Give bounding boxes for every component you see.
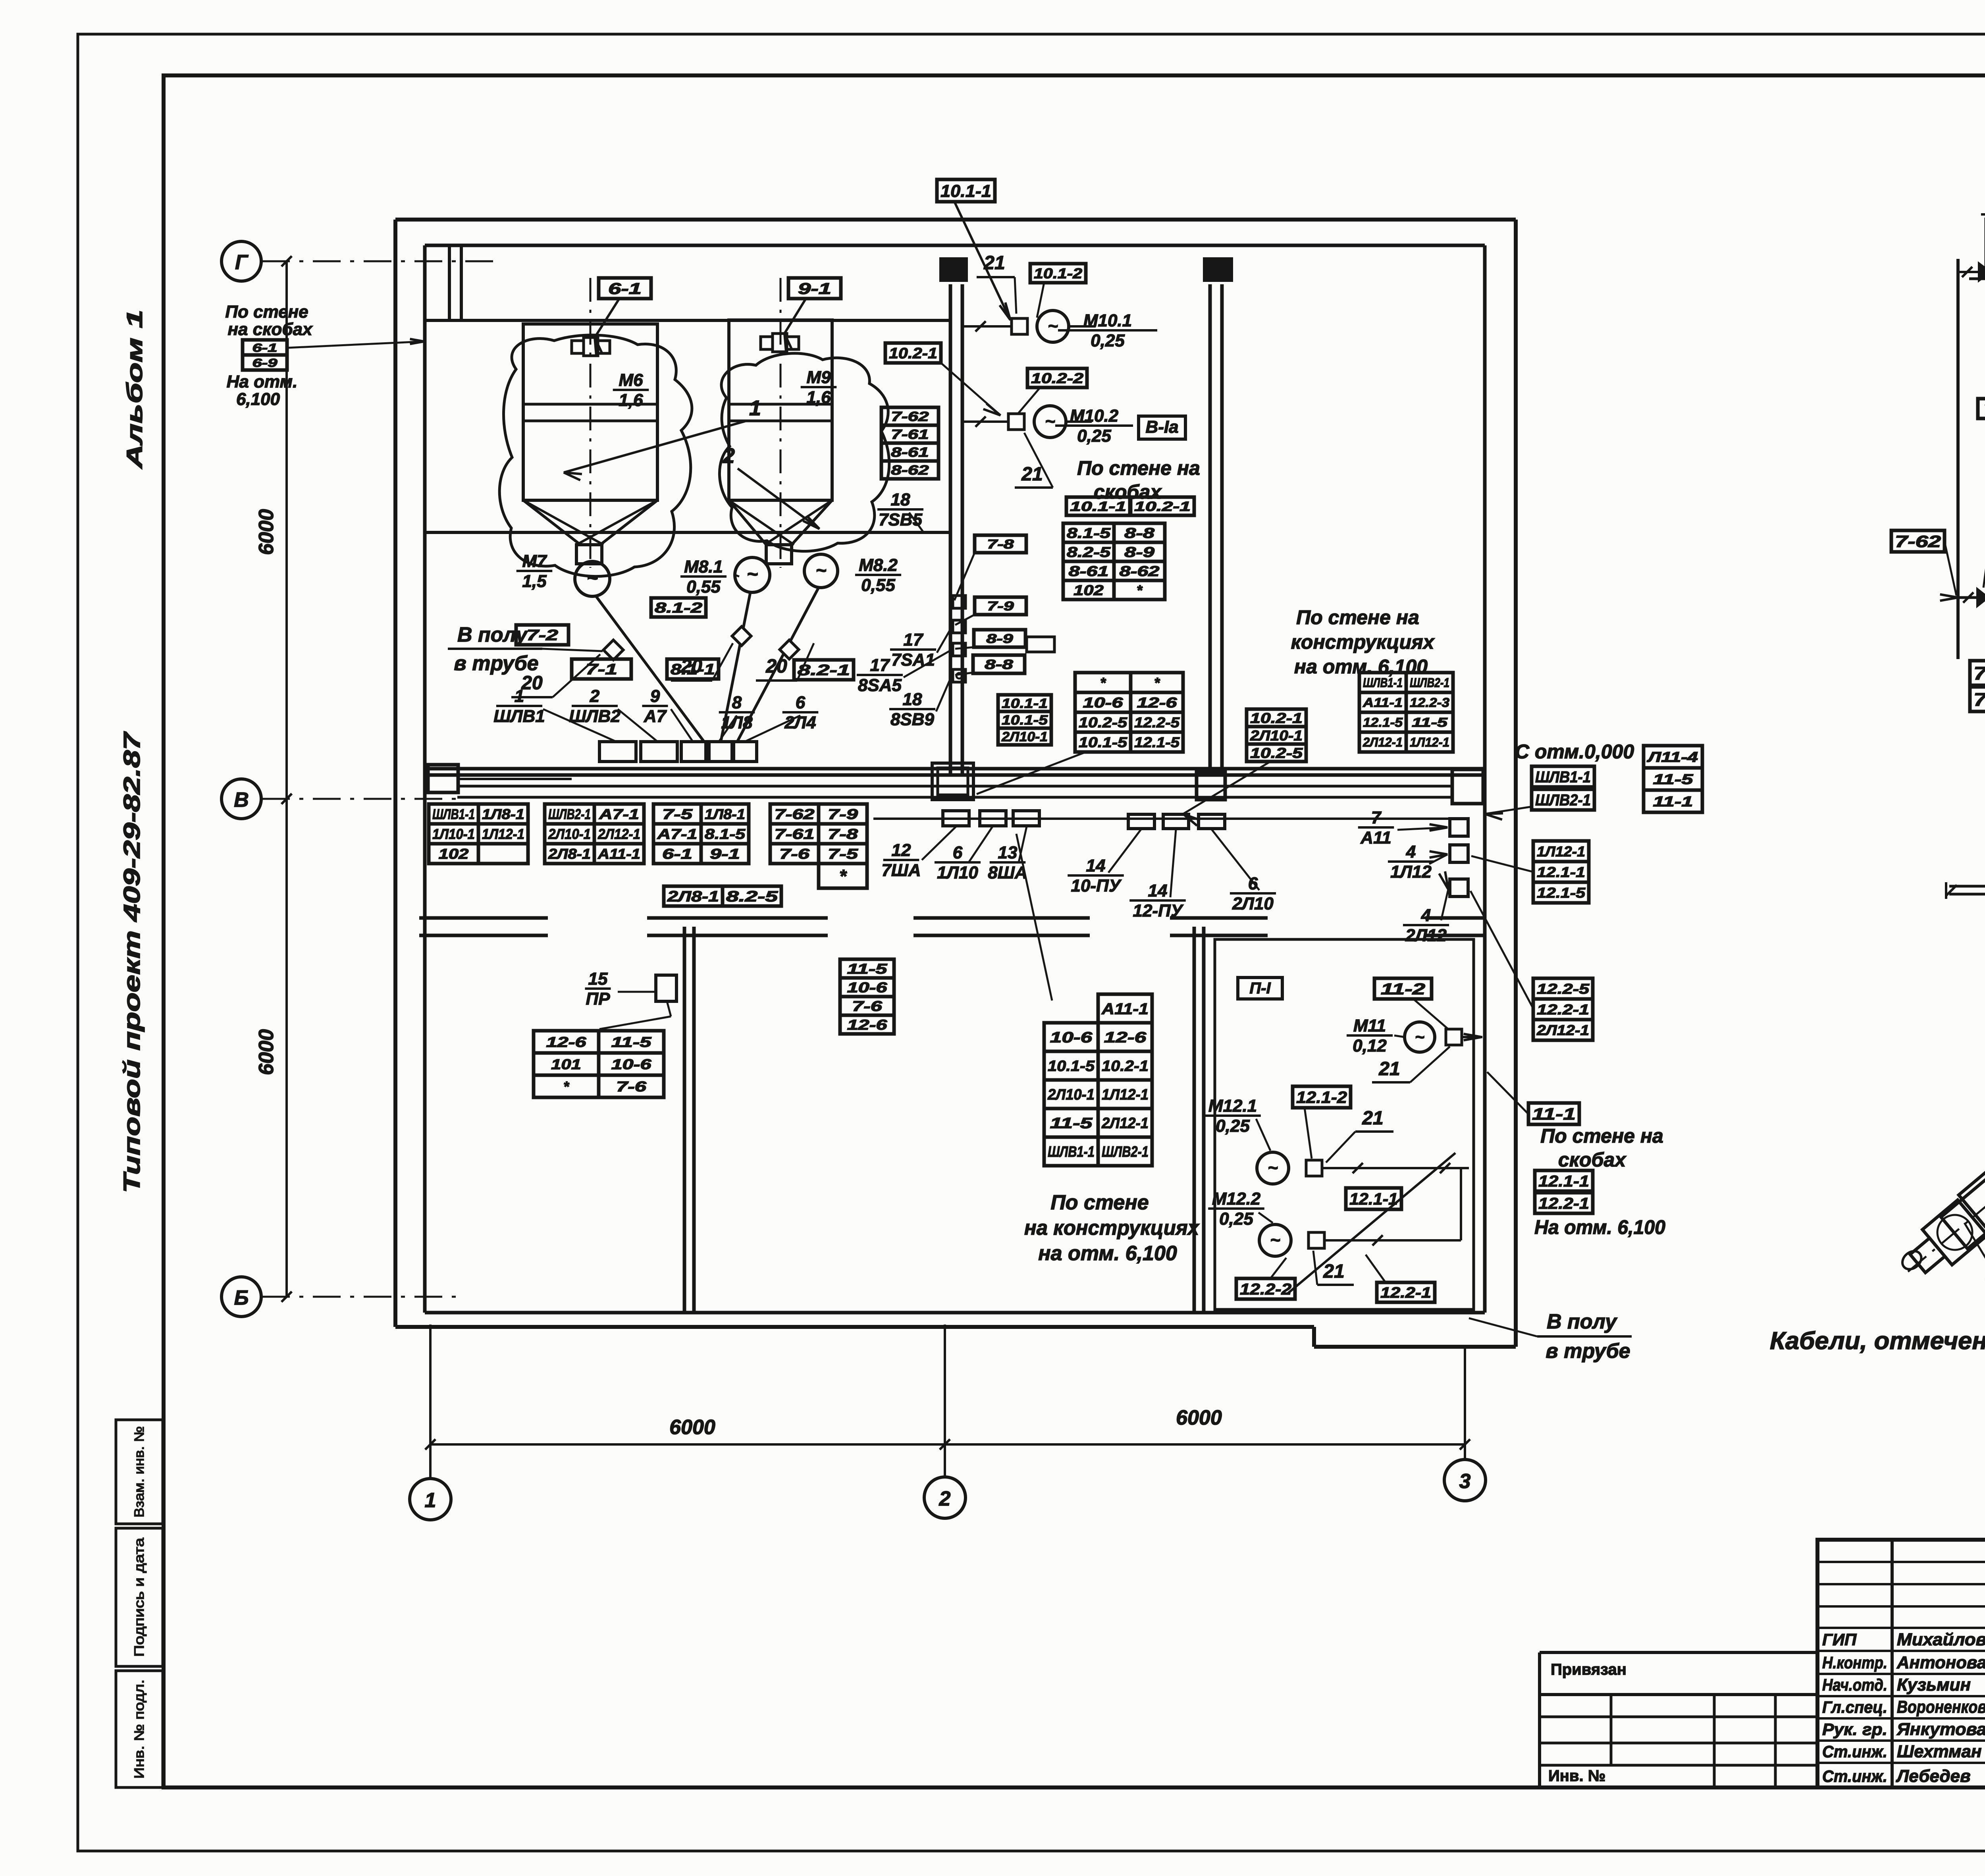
axis line Б (262, 1292, 461, 1302)
svg-text:7-5: 7-5 (828, 846, 858, 862)
svg-text:10.1-1: 10.1-1 (1002, 696, 1048, 711)
wall jog x1132 (449, 245, 461, 320)
note На отм. 6,100 (left) (227, 372, 298, 409)
callout 4 / 2Л12 (1403, 871, 1449, 945)
callout 20 c (756, 643, 814, 681)
callout 7 / А11 (1358, 808, 1447, 847)
margin box Подпись и дата (116, 1528, 163, 1666)
svg-text:4: 4 (1406, 842, 1416, 862)
label 17 / 8SА5 (857, 650, 952, 695)
wall: interior vertical x1735 (684, 927, 694, 1313)
line М12.1 run (1322, 1163, 1469, 1173)
svg-text:7-9: 7-9 (828, 806, 858, 822)
axis line 1 (429, 1325, 432, 1479)
svg-text:Подпись и дата: Подпись и дата (132, 1538, 147, 1657)
label boxes 7-61 7-62 stack (1970, 661, 1985, 711)
svg-text:11-5: 11-5 (1050, 1115, 1093, 1132)
svg-text:Инв. № подл.: Инв. № подл. (132, 1679, 147, 1779)
svg-text:7: 7 (1371, 808, 1382, 827)
svg-text:10.2-1: 10.2-1 (1134, 499, 1191, 514)
svg-text:Ст.инж.: Ст.инж. (1822, 1742, 1887, 1761)
callout 21 (М12.1) (1326, 1108, 1393, 1163)
svg-text:7-62: 7-62 (775, 806, 815, 822)
svg-text:на скобах: на скобах (227, 320, 313, 339)
cabinet 2Л4 (734, 742, 757, 762)
svg-text:~: ~ (1415, 1028, 1424, 1046)
svg-text:8-8: 8-8 (1124, 525, 1154, 541)
svg-text:А11-1: А11-1 (1101, 1000, 1149, 1018)
wall: interior vertical x3020 (1194, 927, 1204, 1313)
svg-text:12.2-1: 12.2-1 (1380, 1285, 1431, 1301)
label box 12.1-1 (М12 room) (1346, 1188, 1401, 1209)
detail 1 lower run (1958, 592, 1985, 603)
label box 12.1-1 (far right) (1535, 1170, 1593, 1191)
label М8.2 / 0,55 (855, 555, 901, 595)
svg-text:12.2-1: 12.2-1 (1538, 1195, 1589, 1212)
svg-text:10-6: 10-6 (1050, 1030, 1093, 1046)
note На отм. 6,100 (1534, 1216, 1665, 1238)
motor М10.1 (1037, 310, 1096, 342)
svg-text:ШЛВ1: ШЛВ1 (493, 706, 545, 726)
label 19 / 7СК2 (1983, 453, 1985, 588)
hopper bin 1 funnel (523, 500, 657, 545)
label boxes 2Л8-1 8.2-5 (664, 886, 781, 906)
svg-text:4: 4 (1421, 906, 1431, 925)
label М12.1 / 0,25 (1204, 1096, 1270, 1151)
svg-text:В полу: В полу (1547, 1310, 1618, 1333)
tray box 14a (1128, 814, 1154, 829)
dimension text 6000 (1-2) (669, 1416, 715, 1439)
privyazan label (1551, 1661, 1627, 1678)
svg-text:ШЛВ2-1: ШЛВ2-1 (1102, 1144, 1149, 1161)
svg-text:7ША: 7ША (881, 860, 921, 880)
callout 13 / 8ША (988, 827, 1027, 882)
margin box Взам. инв. № (116, 1420, 163, 1524)
svg-text:~: ~ (747, 564, 758, 585)
wall: corridor north (425, 769, 1485, 775)
note По стене на скобах (far left) (225, 302, 313, 339)
svg-text:0,12: 0,12 (1353, 1036, 1387, 1055)
margin box Инв. № подл. (116, 1671, 163, 1787)
callout 20 a (511, 654, 600, 697)
feed line М10.2 (962, 416, 1008, 427)
wall: corridor south segment 1 (419, 918, 548, 935)
svg-text:101: 101 (551, 1056, 581, 1072)
svg-text:1Л12-1: 1Л12-1 (1537, 843, 1585, 860)
label box 8.1-2 (651, 598, 706, 617)
svg-text:12.2-3: 12.2-3 (1410, 696, 1449, 710)
svg-text:11-5: 11-5 (1412, 715, 1448, 730)
svg-text:2Л12-1: 2Л12-1 (1536, 1022, 1589, 1038)
hopper bin 2 funnel (729, 500, 832, 545)
tray box 12 (943, 811, 969, 826)
svg-text:6: 6 (796, 693, 806, 712)
svg-text:10-6: 10-6 (847, 979, 888, 995)
hopper bin 2 centerline (780, 278, 782, 568)
svg-text:10.2-1: 10.2-1 (1250, 710, 1303, 726)
table 12.2-5 column (1470, 891, 1593, 1040)
svg-text:8.2-5: 8.2-5 (1067, 544, 1111, 560)
svg-text:10-ПУ: 10-ПУ (1071, 876, 1122, 895)
svg-text:2Л8-1: 2Л8-1 (548, 846, 591, 862)
label box 12.2-1 (М12 room) (1366, 1255, 1435, 1302)
leader ПР to table (599, 1001, 671, 1029)
label box ШЛВ1-1 (right wall) (1532, 766, 1594, 787)
svg-text:2Л10-1: 2Л10-1 (1047, 1087, 1095, 1103)
svg-text:Взам. инв. №: Взам. инв. № (132, 1426, 147, 1517)
callout 8 / 1Л8 (719, 693, 755, 741)
svg-text:Гл.спец.: Гл.спец. (1822, 1698, 1887, 1716)
pull box diamond 3 (780, 640, 799, 659)
svg-text:3: 3 (1459, 1470, 1471, 1493)
svg-text:8ША: 8ША (988, 863, 1027, 882)
svg-text:8.1-1: 8.1-1 (671, 661, 715, 678)
svg-text:2Л12-1: 2Л12-1 (1363, 735, 1403, 750)
svg-text:~: ~ (1270, 1230, 1280, 1250)
margin caption: Альбом 1 (122, 310, 147, 470)
label 18 / 8SВ9 (889, 675, 952, 729)
svg-text:7-6: 7-6 (852, 998, 883, 1014)
table 12-6 group (534, 1031, 664, 1097)
hopper bin 2 chute (766, 545, 792, 564)
callout 21 (М10.1) (977, 253, 1016, 314)
svg-text:1Л12-1: 1Л12-1 (1410, 735, 1449, 750)
svg-text:*: * (1100, 675, 1106, 691)
svg-text:Лебедев: Лебедев (1896, 1766, 1971, 1786)
svg-text:1: 1 (425, 1489, 436, 1512)
wall: corridor south segment 5 (1425, 918, 1485, 935)
note По стене на скобах (right) (1540, 1125, 1663, 1171)
svg-text:Б: Б (234, 1286, 249, 1309)
svg-text:2Л10-1: 2Л10-1 (1250, 727, 1303, 744)
svg-text:По стене на: По стене на (1077, 457, 1200, 479)
wall box 2Л12 (1450, 879, 1468, 897)
svg-text:7-8: 7-8 (828, 826, 858, 842)
label box 8-9 (955, 630, 1054, 652)
svg-text:М10.1: М10.1 (1083, 311, 1132, 330)
table starred 10-6/12-6 (1075, 673, 1183, 752)
svg-text:Антонова: Антонова (1896, 1653, 1985, 1672)
svg-text:8-9: 8-9 (1124, 544, 1154, 560)
svg-text:По стене на: По стене на (1296, 606, 1419, 629)
svg-text:М10.2: М10.2 (1070, 406, 1119, 426)
screw conveyor left (1889, 1126, 1985, 1294)
duct riser x3060 (1210, 284, 1222, 774)
hopper bin 2 top valve (761, 334, 799, 352)
svg-text:8-61: 8-61 (891, 445, 929, 460)
svg-text:6-1: 6-1 (252, 341, 278, 355)
svg-text:8-61: 8-61 (1069, 563, 1109, 579)
svg-text:М8.2: М8.2 (859, 555, 898, 575)
svg-text:0,25: 0,25 (1091, 331, 1125, 350)
svg-text:6-1: 6-1 (608, 280, 642, 297)
callout 21 (М11) (1372, 1047, 1450, 1082)
hopper bin 1 centerline (590, 278, 592, 568)
svg-text:1Л10: 1Л10 (937, 863, 978, 882)
svg-text:6: 6 (953, 843, 963, 862)
label М10.1 / 0,25 (1058, 311, 1157, 350)
pull box diamond 2 (732, 627, 751, 646)
callout 14 / 12-ПУ (1129, 829, 1186, 920)
note По стене на конструкциях 6,100 (left) (1024, 1191, 1200, 1265)
svg-text:12-6: 12-6 (546, 1034, 587, 1050)
svg-text:8SВ9: 8SВ9 (890, 710, 935, 729)
wall: left inner (423, 245, 427, 1313)
svg-text:12-6: 12-6 (1137, 694, 1178, 711)
svg-text:Н.контр.: Н.контр. (1822, 1653, 1887, 1672)
tray box 6 (980, 811, 1006, 826)
label box 12.2-1 (far right) (1535, 1193, 1593, 1213)
svg-text:8: 8 (732, 693, 742, 712)
valve flag top (7СК1) (1958, 261, 1985, 283)
callout 21 (М10.2) (1015, 433, 1053, 488)
svg-text:8.1-2: 8.1-2 (655, 600, 702, 616)
svg-text:17: 17 (870, 656, 890, 675)
note Кабели отмеченные (1770, 1327, 1985, 1355)
leader right stack (1485, 807, 1531, 819)
svg-text:10.1-5: 10.1-5 (1048, 1058, 1095, 1075)
svg-text:А7: А7 (644, 706, 667, 726)
detail 1 supply pipe (1956, 259, 1960, 659)
hopper bin 1 level lines (523, 404, 657, 421)
svg-text:12-6: 12-6 (1104, 1030, 1147, 1046)
svg-text:1,5: 1,5 (522, 571, 547, 591)
tray box 6b (1199, 814, 1225, 829)
label box 7-9 (955, 597, 1026, 625)
table ШЛВ1-1/ШЛВ2-1 right (1359, 673, 1453, 752)
label box 8.2-1 (794, 660, 854, 680)
cabinet ШЛВ2 (641, 742, 677, 762)
label box 6-1 (left) (243, 340, 287, 355)
svg-text:9-1: 9-1 (710, 846, 740, 862)
svg-text:~: ~ (816, 560, 827, 580)
svg-text:1Л8-1: 1Л8-1 (705, 806, 745, 822)
svg-text:10-6: 10-6 (1083, 694, 1124, 711)
svg-text:В-Iа: В-Iа (1145, 417, 1178, 437)
callout 6 / 2Л10 (1212, 829, 1276, 913)
svg-text:8SА5: 8SА5 (858, 675, 902, 695)
pull box М10.1 (1012, 318, 1027, 334)
detail 1 vent pipe (1981, 209, 1985, 273)
svg-text:10.1-5: 10.1-5 (1002, 713, 1048, 728)
svg-text:По стене: По стене (225, 302, 308, 322)
label 17 / 7SА1 (890, 627, 952, 669)
svg-text:102: 102 (439, 846, 469, 862)
svg-text:ШЛВ1-1: ШЛВ1-1 (1048, 1144, 1095, 1161)
axis line В (262, 794, 459, 804)
wall outlet a (953, 596, 966, 608)
svg-text:2Л12: 2Л12 (1405, 925, 1447, 945)
svg-text:Шехтман: Шехтман (1897, 1742, 1982, 1761)
detail 1 top rail (1969, 262, 1985, 287)
room floor line (425, 531, 950, 534)
svg-text:2Л10-1: 2Л10-1 (548, 826, 591, 842)
svg-text:12: 12 (892, 841, 911, 860)
inv number label (1548, 1767, 1605, 1785)
svg-text:12.1-2: 12.1-2 (1296, 1088, 1347, 1107)
svg-text:21: 21 (1378, 1059, 1400, 1080)
svg-text:18: 18 (903, 690, 922, 709)
title block signature names (1822, 1630, 1985, 1786)
svg-text:21: 21 (1362, 1108, 1383, 1129)
svg-text:Нач.отд.: Нач.отд. (1822, 1675, 1887, 1694)
svg-text:*: * (839, 866, 847, 887)
svg-text:20: 20 (765, 656, 787, 677)
svg-text:А11-1: А11-1 (1363, 696, 1403, 710)
svg-text:ШЛВ2-1: ШЛВ2-1 (548, 806, 591, 822)
svg-text:В: В (234, 789, 249, 812)
motor М11 (1405, 1022, 1435, 1052)
room М12 inner outline (1215, 939, 1474, 1309)
svg-text:8-9: 8-9 (986, 632, 1013, 646)
svg-text:0,25: 0,25 (1216, 1116, 1250, 1136)
label box 7-62 (left) (1891, 530, 1958, 601)
svg-text:в трубе: в трубе (1546, 1340, 1630, 1363)
callout 6 / 1Л10 (935, 827, 992, 882)
svg-text:8.1-5: 8.1-5 (705, 826, 746, 842)
junction box center duct (1197, 772, 1225, 800)
junction box corridor right (1452, 769, 1483, 804)
pull box М10.2 (1008, 414, 1024, 430)
label box 10.2-1 (floating) (885, 343, 1000, 415)
svg-text:М8.1: М8.1 (684, 557, 723, 576)
svg-text:8.2-5: 8.2-5 (726, 889, 778, 905)
axis line 2 (944, 1325, 946, 1477)
svg-text:1: 1 (515, 686, 524, 706)
svg-text:1,6: 1,6 (806, 388, 831, 407)
note С отм.0,000 (1515, 740, 1634, 763)
svg-text:18: 18 (891, 490, 910, 509)
hopper bin 1 top valve (572, 337, 610, 356)
svg-text:Кузьмин: Кузьмин (1897, 1675, 1971, 1695)
wall: corridor south segment 3 (913, 918, 1090, 935)
svg-text:12.1-5: 12.1-5 (1134, 734, 1180, 750)
label box 8-8 (955, 655, 1025, 675)
svg-text:10.2-1: 10.2-1 (889, 345, 937, 362)
svg-text:7-6: 7-6 (616, 1078, 647, 1095)
svg-text:8.1-5: 8.1-5 (1067, 525, 1111, 541)
svg-text:В полу: В полу (457, 623, 528, 646)
svg-text:10.2-5: 10.2-5 (1250, 745, 1303, 761)
motor М8.2 (804, 554, 838, 588)
callout 4 / 1Л12 (1388, 842, 1447, 881)
pull box М12.2 (1309, 1232, 1324, 1248)
wall cap rect upper divider (939, 257, 968, 282)
svg-text:Михайлов: Михайлов (1897, 1630, 1985, 1649)
svg-text:7-6: 7-6 (779, 846, 810, 862)
svg-text:1Л12-1: 1Л12-1 (1102, 1087, 1149, 1103)
label box 7-61 (detail1) (1978, 284, 1985, 418)
table 11-5 column (840, 959, 894, 1034)
horizontal dimension line 1-3 (425, 1439, 1470, 1450)
device ПР (656, 975, 676, 1001)
leader from starred table (977, 753, 1084, 794)
callout 14 / 10-ПУ (1068, 829, 1141, 895)
label box 12.2-2 (1236, 1258, 1295, 1299)
callout 1 (564, 396, 761, 480)
table 8.1-5 group (1063, 523, 1165, 600)
svg-text:14: 14 (1086, 856, 1106, 875)
svg-text:7-62: 7-62 (1895, 532, 1941, 551)
cable tray stub lower (873, 817, 1452, 820)
table 10.2-1 column (1247, 709, 1306, 762)
table 10.1-1 column (998, 695, 1051, 745)
svg-text:7-2: 7-2 (526, 627, 558, 644)
dimension text 6000 (В-Б) (255, 1029, 278, 1075)
axis circle В (222, 779, 261, 819)
feed line М10.1 (962, 321, 1012, 332)
label М8.1 / 0,55 (680, 557, 739, 596)
axis circle Б (222, 1277, 261, 1317)
wall: right inner (1483, 245, 1487, 1313)
svg-text:М9: М9 (806, 368, 831, 387)
motor М12.2 (1259, 1224, 1291, 1256)
svg-text:0,55: 0,55 (861, 575, 895, 595)
svg-text:П-I: П-I (1249, 979, 1271, 997)
label box 10.2-2 (1018, 368, 1087, 414)
svg-text:А7-1: А7-1 (657, 826, 697, 842)
svg-text:М11: М11 (1353, 1016, 1386, 1035)
label 18 / 7SВ5 (877, 490, 923, 532)
svg-text:12.2-1: 12.2-1 (1537, 1001, 1589, 1018)
label box ШЛВ2-1 (right wall) (1532, 789, 1594, 810)
svg-text:1,6: 1,6 (619, 390, 643, 410)
svg-text:0,25: 0,25 (1077, 426, 1111, 445)
motor М7 (575, 561, 610, 596)
svg-text:12.1-1: 12.1-1 (1538, 1172, 1589, 1190)
svg-text:М7: М7 (522, 551, 547, 571)
cable cloud around bin 1 (499, 335, 692, 576)
svg-text:7-61: 7-61 (1973, 663, 1985, 684)
dimension text 6000 (Г-В) (255, 509, 278, 555)
cabinet 1Л8 (709, 742, 732, 762)
svg-text:9-1: 9-1 (798, 280, 831, 297)
svg-text:Ст.инж.: Ст.инж. (1822, 1767, 1887, 1785)
pull box diamond 1 (603, 640, 623, 660)
svg-text:7SА1: 7SА1 (891, 650, 935, 669)
svg-text:10.2-5: 10.2-5 (1079, 714, 1127, 731)
label М7 / 1,5 (516, 551, 553, 591)
svg-text:17: 17 (904, 630, 924, 650)
callout 1 / ШЛВ1 (493, 686, 615, 741)
hopper bin 1 chute (576, 545, 602, 564)
svg-text:9: 9 (650, 686, 660, 706)
svg-text:~: ~ (587, 568, 598, 589)
wall: top inner (425, 244, 1485, 247)
svg-text:6-1: 6-1 (662, 846, 692, 862)
label М6 / 1,6 (613, 370, 649, 410)
wall: upper divider x2400 (950, 284, 962, 774)
svg-text:10.1-1: 10.1-1 (1070, 499, 1126, 514)
svg-text:10.2-1: 10.2-1 (1102, 1058, 1149, 1075)
label box 12.1-2 (1293, 1086, 1351, 1159)
svg-text:7-8: 7-8 (987, 537, 1014, 551)
svg-text:2: 2 (723, 444, 735, 468)
leader big table (1016, 834, 1052, 1001)
svg-text:Г: Г (235, 251, 249, 274)
svg-text:1Л12-1: 1Л12-1 (482, 826, 524, 842)
label box 10.1-1 (floating) (937, 179, 1010, 320)
svg-text:скобах: скобах (1558, 1149, 1627, 1171)
svg-text:12-ПУ: 12-ПУ (1133, 901, 1183, 920)
axis circle 3 (1444, 1460, 1486, 1501)
tray box 14b (1163, 814, 1189, 829)
leader left boxes to wall (287, 339, 424, 348)
svg-text:на отм. 6,100: на отм. 6,100 (1294, 656, 1428, 678)
svg-text:ШЛВ2-1: ШЛВ2-1 (1535, 791, 1591, 809)
svg-text:А11-1: А11-1 (597, 846, 640, 862)
wall: left outer (393, 220, 397, 1327)
